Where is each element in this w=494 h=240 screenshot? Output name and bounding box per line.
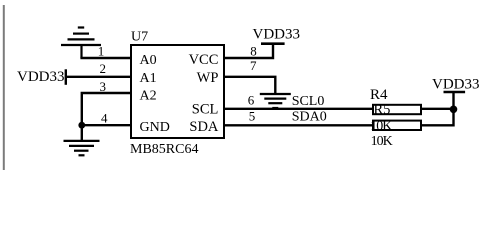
ground GND2 (power ground, bottom left) [64, 141, 100, 155]
svg-text:SCL: SCL [192, 102, 219, 118]
svg-text:SDA: SDA [189, 119, 219, 135]
svg-text:6: 6 [248, 93, 255, 108]
svg-text:VDD33: VDD33 [253, 26, 301, 42]
power symbol VDD33 (right, bar) [444, 91, 466, 94]
wire down to ground [81, 125, 83, 141]
svg-text:VCC: VCC [189, 52, 219, 68]
svg-text:10K: 10K [371, 134, 393, 149]
svg-text:MB85RC64: MB85RC64 [130, 142, 198, 157]
wire pin2 A1 [66, 76, 131, 78]
svg-text:2: 2 [100, 61, 107, 76]
svg-text:R5: R5 [374, 102, 391, 118]
resistor R4 body [373, 105, 421, 114]
svg-text:VDD33: VDD33 [17, 69, 65, 85]
wire pin3 A2 [82, 93, 131, 125]
svg-text:3: 3 [100, 79, 107, 94]
svg-text:GND: GND [140, 120, 170, 135]
svg-text:VDD33: VDD33 [432, 77, 480, 93]
wire R4 right to VDD [421, 108, 454, 110]
svg-text:4: 4 [101, 111, 108, 126]
sheet border segment (gray vertical line at left) [3, 5, 5, 170]
junction dot (SCL/VDD pullup node) [450, 106, 458, 114]
svg-text:5: 5 [249, 109, 256, 124]
svg-text:8: 8 [250, 44, 257, 59]
svg-text:SDA0: SDA0 [292, 110, 327, 125]
wire R5 right up to VDD [421, 92, 454, 125]
svg-text:SCL0: SCL0 [292, 94, 325, 109]
junction dot (pin3/pin4 net) [78, 122, 85, 129]
svg-text:1: 1 [98, 43, 105, 58]
wire pin1 A0 [80, 57, 131, 59]
ground GND3 (power ground on WP) [260, 94, 291, 108]
svg-text:A1: A1 [140, 71, 157, 86]
svg-text:U7: U7 [131, 30, 148, 45]
power symbol VDD33 (top, bar) [261, 42, 285, 45]
svg-text:R4: R4 [370, 87, 388, 103]
ground GND1 (power ground on pin 1, flipped up) [61, 28, 101, 59]
wire pin6 SCL net SCL0 [224, 108, 373, 110]
wire pin7 WP to ground [224, 77, 275, 94]
svg-text:A0: A0 [140, 53, 157, 68]
wire pin8 VCC to VDD33 [224, 44, 273, 58]
op IC U7 MB85RC64 body [131, 45, 224, 138]
wire pin4 GND [82, 124, 131, 126]
svg-text:7: 7 [250, 58, 257, 73]
svg-text:A2: A2 [140, 88, 157, 103]
svg-text:WP: WP [197, 70, 219, 86]
wire pin5 SDA net SDA0 [224, 124, 373, 126]
resistor R5 body [373, 121, 421, 130]
port tick [65, 69, 67, 85]
